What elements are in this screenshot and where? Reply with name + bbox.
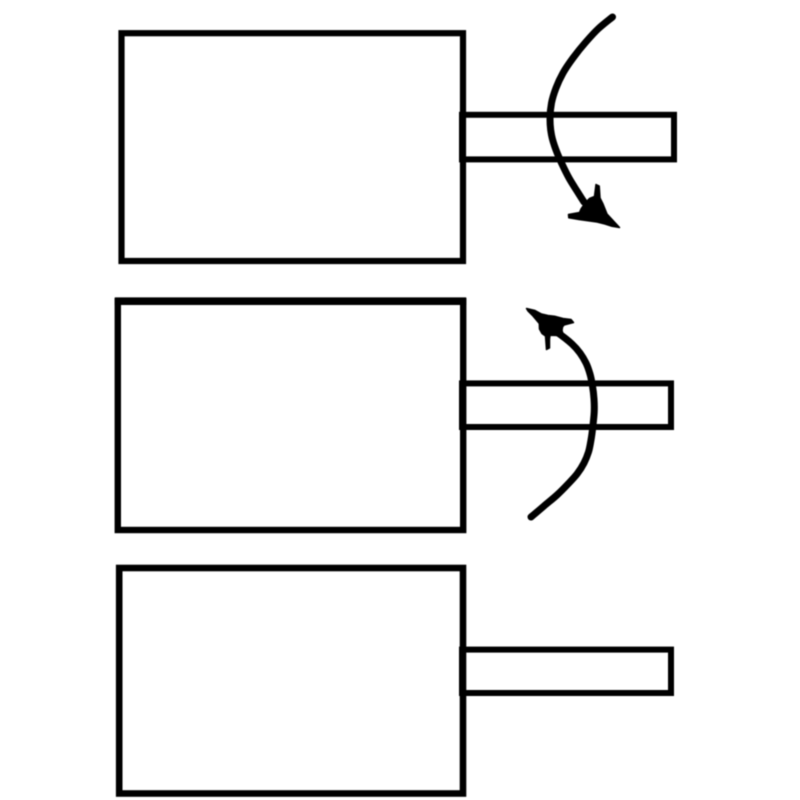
shaft 2 [462, 383, 671, 427]
box 2 heavier top edge [115, 297, 466, 305]
rotation arc 2 [531, 332, 594, 518]
shaft 3 [462, 650, 671, 693]
box 1 (top actuator body) [122, 33, 464, 261]
arrowhead 1 (points down-right): traced outline with up barb and left barb [569, 185, 620, 228]
rotation arc 1 [550, 17, 613, 202]
shaft 1 [462, 115, 674, 160]
box 3 (bottom actuator body) [119, 568, 463, 794]
arrowhead 2 (points up-left): traced outline with right barb and down barb [527, 309, 574, 350]
box 2 (middle actuator body) [118, 301, 463, 530]
